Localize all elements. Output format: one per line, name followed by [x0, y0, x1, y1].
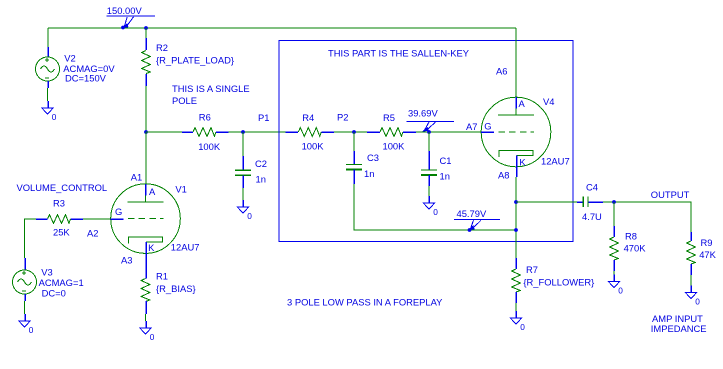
voltage source V2	[47, 47, 49, 57]
svg-text:K: K	[519, 156, 526, 167]
wire V2 top drop	[47, 28, 49, 47]
ground under R7	[510, 318, 521, 324]
svg-text:0: 0	[520, 322, 525, 332]
ground under V2	[42, 108, 53, 114]
wire V3 to ground	[24, 301, 26, 314]
svg-text:R7: R7	[526, 264, 538, 275]
wire A1 junction to R6	[146, 131, 182, 133]
wire R9 to ground	[690, 275, 692, 286]
svg-text:IMPEDANCE: IMPEDANCE	[651, 323, 707, 334]
junction dot R2 top	[144, 26, 148, 30]
svg-text:R1: R1	[156, 270, 168, 281]
junction dot 45.79V probe	[468, 228, 472, 232]
resistor R5 100K	[367, 131, 380, 133]
wire R6 to P1	[229, 131, 286, 133]
wire R5 to V4 grid node A7	[416, 131, 481, 133]
svg-text:0: 0	[52, 112, 57, 122]
svg-text:P1: P1	[258, 112, 269, 123]
svg-text:R6: R6	[199, 112, 211, 123]
ground under R9	[685, 293, 696, 299]
wire C1 to ground	[428, 186, 430, 196]
svg-text:DC=0: DC=0	[42, 287, 66, 298]
wire top rail down to V4 plate node A6	[515, 28, 517, 97]
wire V4 cathode to C4	[516, 201, 577, 203]
wire R3 corner to V3	[83, 218, 111, 220]
ground under C1	[423, 203, 434, 209]
svg-text:{R_FOLLOWER}: {R_FOLLOWER}	[523, 276, 594, 287]
capacitor C2 1n	[242, 132, 244, 156]
svg-text:C3: C3	[367, 152, 379, 163]
triode V4 12AU7	[481, 97, 551, 167]
svg-text:12AU7: 12AU7	[541, 155, 570, 166]
junction dot feedback node	[514, 228, 518, 232]
svg-text:THIS PART IS THE SALLEN-KEY: THIS PART IS THE SALLEN-KEY	[328, 47, 470, 58]
svg-text:A1: A1	[131, 171, 142, 182]
svg-text:R9: R9	[701, 237, 713, 248]
svg-text:1n: 1n	[440, 170, 450, 181]
svg-text:100K: 100K	[302, 140, 325, 151]
resistor R7 {R_FOLLOWER}	[515, 258, 517, 269]
svg-text:{R_PLATE_LOAD}: {R_PLATE_LOAD}	[156, 55, 234, 66]
wire R3 to V3	[25, 219, 37, 258]
wire V2 to ground	[47, 88, 49, 101]
svg-text:3 POLE LOW PASS IN A FOREPLAY: 3 POLE LOW PASS IN A FOREPLAY	[287, 297, 443, 308]
svg-text:0: 0	[433, 207, 438, 217]
svg-text:25K: 25K	[53, 226, 70, 237]
ground under C2	[237, 207, 248, 213]
svg-text:12AU7: 12AU7	[171, 241, 200, 252]
svg-text:R5: R5	[383, 112, 395, 123]
svg-text:OUTPUT: OUTPUT	[651, 189, 690, 200]
resistor R8 470K	[613, 202, 615, 226]
svg-text:A7: A7	[466, 121, 477, 132]
svg-text:G: G	[484, 121, 491, 132]
wire R2 to plate node A1	[145, 86, 147, 132]
wire R7 to ground	[515, 303, 517, 311]
junction dot node P2	[352, 130, 356, 134]
svg-text:4.7U: 4.7U	[582, 211, 602, 222]
junction dot R8 node	[612, 200, 616, 204]
svg-text:VOLUME_CONTROL: VOLUME_CONTROL	[17, 182, 108, 193]
svg-text:R2: R2	[156, 42, 168, 53]
svg-text:A8: A8	[498, 170, 509, 181]
svg-text:150.00V: 150.00V	[107, 5, 143, 16]
svg-text:C1: C1	[440, 155, 452, 166]
wire top rail from V2 to V4 plate	[48, 27, 516, 29]
junction dot node P1	[241, 130, 245, 134]
capacitor C4 4.7U	[577, 201, 583, 203]
svg-text:A2: A2	[87, 227, 98, 238]
wire C4 to OUTPUT	[603, 202, 691, 232]
svg-text:P2: P2	[337, 111, 348, 122]
svg-text:0: 0	[29, 325, 34, 335]
resistor R3 25K	[71, 218, 84, 220]
capacitor C1 1n	[428, 132, 430, 151]
svg-text:100K: 100K	[383, 141, 406, 152]
resistor R2	[145, 28, 147, 38]
wire A1 to V1 plate	[145, 132, 147, 184]
svg-text:V4: V4	[543, 96, 554, 107]
wire R1 to ground	[145, 314, 147, 321]
wire R8 to ground	[613, 271, 615, 275]
wire C3 bottom to feedback node	[354, 184, 516, 230]
Sallen-Key box outline	[279, 41, 573, 242]
resistor R4 100K	[286, 131, 299, 133]
wire R4 to P2	[334, 131, 367, 133]
wire C2 to ground	[242, 188, 244, 200]
svg-text:0: 0	[150, 332, 155, 342]
svg-text:A3: A3	[121, 254, 132, 265]
svg-text:G: G	[115, 206, 122, 217]
junction dot C4 node	[514, 200, 518, 204]
svg-text:1n: 1n	[256, 173, 266, 184]
svg-text:0: 0	[247, 211, 252, 221]
ground under R1	[140, 328, 151, 334]
svg-text:DC=150V: DC=150V	[65, 72, 107, 83]
svg-text:C2: C2	[255, 158, 267, 169]
junction dot node A1	[144, 130, 148, 134]
svg-text:R4: R4	[302, 112, 314, 123]
svg-text:K: K	[148, 242, 155, 253]
svg-text:1n: 1n	[364, 168, 374, 179]
svg-text:R8: R8	[625, 231, 637, 242]
svg-text:C4: C4	[586, 181, 598, 192]
voltage source V3	[24, 258, 26, 270]
svg-text:R3: R3	[53, 197, 65, 208]
svg-text:100K: 100K	[198, 141, 221, 152]
svg-text:45.79V: 45.79V	[457, 208, 487, 219]
svg-text:THIS IS A SINGLE: THIS IS A SINGLE	[172, 83, 250, 94]
svg-text:A6: A6	[496, 65, 507, 76]
svg-text:V1: V1	[175, 184, 186, 195]
ground under V3	[19, 321, 30, 327]
resistor R1 {R_BIAS}	[145, 263, 147, 279]
capacitor C3 1n	[353, 132, 355, 151]
svg-text:0: 0	[618, 285, 623, 295]
wire V4 cathode down through C4 node and feedback node to R7	[515, 177, 517, 258]
svg-text:0: 0	[695, 296, 700, 306]
svg-text:A: A	[519, 98, 526, 109]
svg-text:{R_BIAS}: {R_BIAS}	[156, 283, 196, 294]
svg-text:POLE: POLE	[172, 95, 197, 106]
svg-text:V2: V2	[64, 53, 75, 64]
triode V1 12AU7	[111, 184, 181, 254]
svg-text:A: A	[149, 186, 156, 197]
junction dot C1 node	[427, 130, 431, 134]
svg-text:39.69V: 39.69V	[408, 108, 438, 119]
resistor R6 100K	[182, 131, 193, 133]
junction dot 150V probe	[121, 26, 125, 30]
resistor R9 47K	[690, 232, 692, 241]
svg-text:47K: 47K	[699, 249, 716, 260]
ground under R8	[608, 282, 619, 288]
svg-text:470K: 470K	[624, 243, 647, 254]
